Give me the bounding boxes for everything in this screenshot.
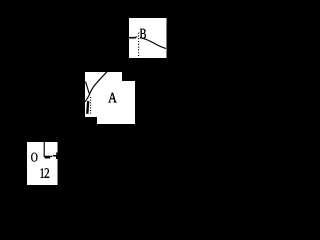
wire: curve bite at right edge of O box <box>56 152 58 159</box>
wire: steep branch into A crossing <box>86 82 90 96</box>
wire: horizontal axis segment near O <box>44 155 53 157</box>
value label 12 <box>41 168 44 178</box>
wire: curve descending right of B <box>140 38 166 49</box>
wire: wavy curve crest left of B <box>129 37 137 39</box>
label box B (white) <box>129 18 166 58</box>
wire: thick dip of curve below axis <box>45 157 51 159</box>
node B label <box>140 29 146 39</box>
node O label <box>31 153 37 162</box>
wire: thick steep curve below A <box>86 101 89 114</box>
label box A (white union polygon) <box>85 72 135 124</box>
wire: small bump of curve right of O <box>53 155 56 157</box>
wire: dashed vertical drop from A <box>90 97 92 114</box>
wire: dashed vertical drop from B <box>138 33 140 57</box>
node A label <box>108 93 117 103</box>
wire: vertical axis segment near O <box>43 142 45 157</box>
label box O (white) <box>27 142 58 185</box>
wire: long diagonal through A <box>85 72 107 102</box>
